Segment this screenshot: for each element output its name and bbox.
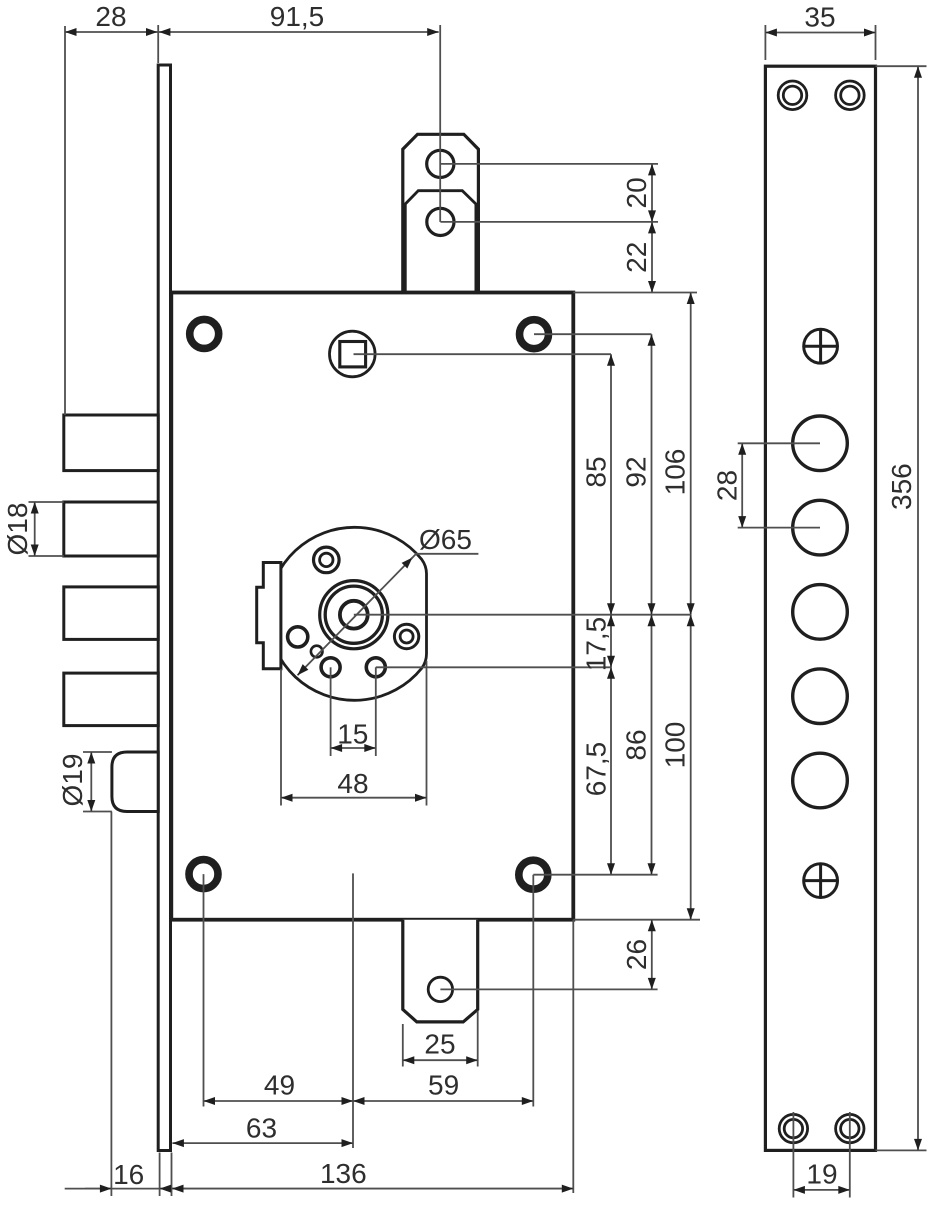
dim 25: [403, 1059, 478, 1061]
plate cross screw top: [804, 329, 838, 363]
ext body-right down: [572, 920, 574, 1193]
plate bottom screw ring right: [836, 1114, 864, 1142]
dim 356: [917, 66, 919, 1150]
ext 19 right: [849, 1112, 851, 1198]
svg-text:19: 19: [806, 1159, 837, 1190]
leader spindle: [354, 353, 612, 355]
top latch outer throw: [403, 134, 479, 292]
dim 19: [793, 1189, 849, 1191]
svg-text:106: 106: [660, 449, 691, 496]
cylinder hub bore: [340, 601, 368, 629]
dim 86: [651, 615, 653, 875]
dim 63: [172, 1142, 353, 1144]
dim Ø18 ext bottom: [29, 555, 64, 557]
svg-text:48: 48: [337, 768, 368, 799]
svg-text:20: 20: [621, 177, 652, 208]
plate bolt hole 4: [793, 669, 848, 724]
strike plate outline: [765, 66, 875, 1150]
dim Ø65 diagonal arrow: [298, 558, 413, 676]
top latch hole 1: [427, 150, 454, 177]
leader hole top-right: [534, 333, 652, 335]
deadbolt 4 (Ø18): [64, 673, 158, 726]
svg-text:15: 15: [337, 719, 368, 750]
top latch hole 2: [427, 208, 454, 235]
leader hole bottom-right: [533, 874, 657, 876]
svg-text:Ø18: Ø18: [2, 503, 33, 556]
svg-text:22: 22: [621, 242, 652, 273]
escutcheon fixing hole right-bottom: [366, 658, 385, 677]
body top ext right: [573, 292, 697, 294]
svg-text:28: 28: [712, 470, 743, 501]
cylinder escutcheon plate: [268, 527, 427, 700]
escutcheon fixing hole left-bottom: [321, 658, 340, 677]
cylinder profile tab: [257, 563, 281, 669]
dim Ø18: [34, 502, 36, 556]
ext 15 right: [375, 667, 377, 756]
spindle square hole: [340, 342, 366, 367]
ext 35 left: [764, 25, 766, 60]
dim 26: [651, 920, 653, 990]
dim 35: [765, 32, 875, 34]
dim 59: [353, 1100, 533, 1102]
plate bolt hole 1: [793, 416, 848, 471]
ext faceplate-left down: [159, 1153, 161, 1197]
bottom dim line: [65, 1188, 574, 1190]
faceplate (front strip, edge view): [158, 65, 170, 1151]
svg-text:25: 25: [424, 1029, 455, 1060]
dim 91,5: [159, 31, 439, 33]
ext 25 left: [402, 1024, 404, 1067]
svg-text:Ø19: Ø19: [57, 754, 88, 807]
body screw hole top-right: [520, 320, 549, 349]
svg-text:63: 63: [246, 1113, 277, 1144]
cylinder centerline bottom: [352, 873, 354, 1148]
escutcheon screw ring top-left inner: [320, 553, 333, 566]
top latch inner throw: [405, 191, 476, 293]
dim 16 arrow left: [85, 1188, 111, 1190]
leader bottom latch hole: [440, 988, 657, 990]
ext 356 top: [876, 65, 927, 67]
svg-text:356: 356: [886, 463, 917, 510]
bottom latch hole: [428, 977, 452, 1001]
ext hole bottom-left down: [203, 874, 205, 1106]
dim 28 top: [65, 31, 158, 33]
dim Ø19 ext bottom: [83, 811, 112, 813]
escutcheon screw ring top-left outer: [314, 547, 340, 573]
escutcheon pin small: [311, 646, 323, 658]
dim 16 arrow right: [160, 1188, 186, 1190]
dim Ø65 leader connector: [411, 554, 416, 559]
dim 15: [331, 747, 376, 749]
dim Ø19: [90, 752, 92, 812]
svg-text:91,5: 91,5: [270, 1, 325, 32]
dim 49: [204, 1100, 354, 1102]
spindle hub circle: [330, 331, 376, 377]
auxiliary latch bolt (Ø19, rounded nose): [112, 752, 158, 812]
dim 28 plate: [741, 443, 743, 527]
svg-text:100: 100: [660, 722, 691, 769]
deadbolt 1 (top, Ø18): [64, 415, 158, 471]
dim 100: [690, 615, 692, 920]
dim 48: [281, 797, 427, 799]
svg-text:136: 136: [320, 1158, 367, 1189]
dim 106: [690, 293, 692, 615]
plate bolt hole 5: [793, 753, 848, 808]
dim Ø18 ext top: [29, 501, 64, 503]
ext 35 right: [875, 25, 877, 60]
ext body-left down: [171, 1153, 173, 1197]
ext 19 left: [792, 1112, 794, 1198]
body screw hole bottom-right: [519, 860, 548, 889]
svg-text:35: 35: [804, 2, 835, 33]
body screw hole top-left: [190, 319, 219, 348]
dim Ø19 ext top: [83, 751, 112, 753]
deadbolt 2 (Ø18): [64, 502, 158, 556]
latch centerline: [439, 25, 441, 222]
body screw hole bottom-left: [189, 860, 218, 889]
ext 356 bottom: [876, 1149, 927, 1151]
plate top screw ring left: [778, 81, 807, 110]
ext line above faceplate: [157, 25, 159, 63]
svg-text:67,5: 67,5: [581, 742, 612, 797]
dim 20: [651, 164, 653, 222]
plate bolt hole 3: [793, 585, 848, 640]
ext Ø19-left down: [110, 812, 112, 1197]
ext 25 right: [477, 1011, 479, 1067]
escutcheon hole left: [288, 627, 308, 647]
plate cross screw bottom: [804, 864, 838, 898]
svg-text:49: 49: [264, 1070, 295, 1101]
leader latch hole 2: [440, 221, 658, 223]
leader cylinder center: [354, 614, 691, 616]
ext 48 left: [280, 669, 282, 806]
dim 67,5: [610, 667, 612, 874]
ext line left of 28: [64, 26, 66, 415]
svg-text:92: 92: [621, 456, 652, 487]
dim Ø65 leader shelf: [415, 553, 478, 555]
ext 48 right: [426, 661, 428, 806]
dim 17,5: [610, 615, 612, 668]
leader latch hole 1: [440, 163, 658, 165]
leader fixing hole bottom: [376, 666, 611, 668]
svg-text:16: 16: [113, 1159, 144, 1190]
plate bottom screw ring left: [779, 1114, 807, 1142]
svg-text:17,5: 17,5: [581, 617, 612, 672]
svg-text:Ø65: Ø65: [419, 524, 472, 555]
dim 92: [651, 334, 653, 615]
escutcheon screw ring right outer: [394, 624, 418, 648]
svg-text:26: 26: [621, 939, 652, 970]
body bottom ext right: [573, 919, 700, 921]
plate top screw ring right: [836, 81, 865, 110]
leader plate hole 1: [738, 442, 820, 444]
deadbolt 3 (Ø18): [64, 587, 158, 640]
cylinder hub outer ring: [320, 581, 388, 649]
svg-text:86: 86: [621, 729, 652, 760]
ext hole bottom-right down: [532, 875, 534, 1107]
svg-text:85: 85: [581, 456, 612, 487]
cylinder hub middle ring: [325, 586, 382, 643]
dim 136 arrows: [172, 1188, 573, 1190]
escutcheon screw ring right inner: [400, 630, 413, 643]
leader plate hole 2: [738, 527, 820, 529]
ext 15 left: [330, 667, 332, 756]
dim 85: [610, 354, 612, 615]
lock body case: [171, 293, 573, 920]
svg-text:28: 28: [95, 1, 126, 32]
dim 22: [651, 222, 653, 293]
svg-text:59: 59: [428, 1070, 459, 1101]
plate bolt hole 2: [793, 500, 848, 555]
bottom latch: [403, 920, 478, 1022]
